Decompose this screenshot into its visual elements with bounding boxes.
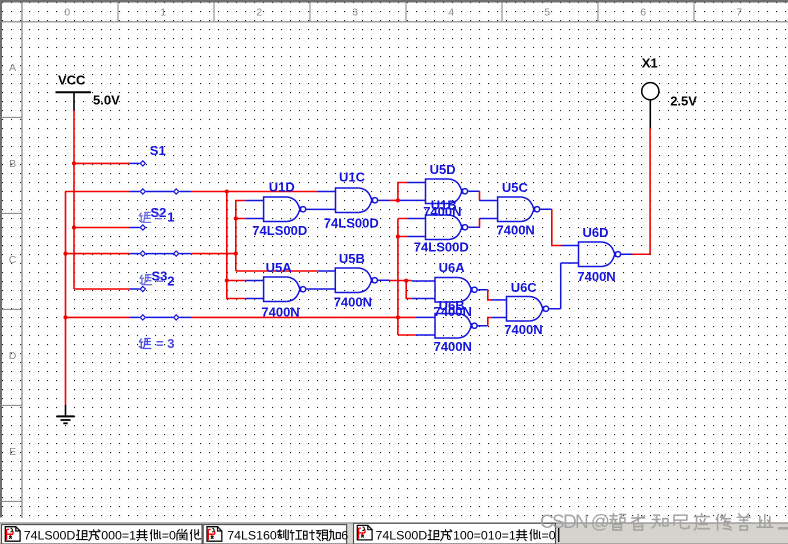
svg-text:7400N: 7400N <box>261 304 299 319</box>
op-gate U6A 7400N <box>435 278 477 303</box>
wire U6C out to U6D bottom <box>549 263 578 309</box>
svg-text:7: 7 <box>736 7 742 19</box>
svg-text:74LS00D: 74LS00D <box>414 240 469 255</box>
wire through3 right <box>191 316 416 318</box>
svg-text:3: 3 <box>352 7 358 19</box>
svg-text:74LS160: 74LS160 <box>227 528 277 542</box>
svg-text:7400N: 7400N <box>334 294 372 309</box>
text cursor <box>558 528 560 543</box>
svg-text:4: 4 <box>448 7 454 19</box>
window top border <box>0 0 788 3</box>
wire U1C out <box>378 199 390 201</box>
wire S2 pole <box>74 227 129 229</box>
op-gate U1B 74LS00D <box>426 215 468 240</box>
wire through1 left <box>66 191 130 193</box>
wire U1B out to U5C <box>468 226 479 228</box>
svg-text:74LS00D: 74LS00D <box>324 215 379 230</box>
wire U6B out to U6C bottom <box>478 325 488 327</box>
wire through1 to U1C <box>191 191 318 193</box>
svg-text:= 3: = 3 <box>156 336 174 351</box>
svg-text:1: 1 <box>160 7 166 19</box>
switch S2 contact <box>129 227 139 229</box>
op-gate U5B 7400N <box>335 268 377 293</box>
wire to U5D top input <box>398 183 408 201</box>
svg-text:X1: X1 <box>642 55 658 70</box>
op-gate U5A 7400N <box>264 277 306 302</box>
window left border <box>0 3 2 518</box>
svg-text:74LS00D: 74LS00D <box>376 528 428 542</box>
svg-text:7400N: 7400N <box>504 322 542 337</box>
svg-text:6: 6 <box>640 7 646 19</box>
wire S3 pole <box>74 288 129 290</box>
svg-text:U6D: U6D <box>583 225 609 240</box>
wire U5D out to U5C <box>468 190 479 192</box>
svg-text:6: 6 <box>341 528 348 542</box>
svg-text:U1C: U1C <box>339 170 366 185</box>
switch S1 through contacts <box>129 191 139 193</box>
svg-text:=: = <box>155 210 163 225</box>
top ruler ticks <box>118 3 694 22</box>
svg-text:U5C: U5C <box>502 180 529 195</box>
svg-text:7400N: 7400N <box>434 339 472 354</box>
svg-text:C: C <box>9 254 17 266</box>
svg-text:U6B: U6B <box>439 298 465 313</box>
svg-text:=: = <box>156 272 164 287</box>
op-gate U6C 7400N <box>507 297 549 322</box>
switch S3 through contacts <box>129 316 139 318</box>
wire U1D input bus <box>236 201 318 272</box>
svg-text:U6A: U6A <box>439 260 466 275</box>
sheet tab 2 <box>203 525 346 544</box>
svg-text:000=1: 000=1 <box>101 528 136 542</box>
op-gate U6D 7400N <box>579 242 621 267</box>
wire U1D out to U1C in <box>306 208 335 210</box>
svg-text:U5D: U5D <box>430 162 456 177</box>
junction dots <box>72 161 76 165</box>
svg-text:U1B: U1B <box>431 198 457 213</box>
switch S2 through contacts <box>129 253 139 255</box>
left ruler ticks <box>0 117 22 501</box>
ground symbol <box>65 405 67 416</box>
svg-text:CSDN @: CSDN @ <box>540 512 609 533</box>
wire S1 pole <box>74 162 129 164</box>
svg-text:100=010=1: 100=010=1 <box>453 528 516 542</box>
svg-text:=0: =0 <box>162 528 176 542</box>
svg-text:7400N: 7400N <box>497 223 535 238</box>
wire U5B out to U6A inputs <box>378 279 390 281</box>
label key=3 <box>139 339 151 349</box>
svg-text:E: E <box>9 446 16 458</box>
svg-text:7400N: 7400N <box>577 269 615 284</box>
op-gate U1D 74LS00D <box>264 197 306 222</box>
svg-text:0: 0 <box>64 7 70 19</box>
label key=2 <box>140 275 152 285</box>
op-gate U6B 7400N <box>435 314 477 339</box>
wire left ground rail <box>65 192 67 406</box>
wire U5A input bus <box>227 192 246 299</box>
svg-text:U6C: U6C <box>511 280 538 295</box>
svg-text:2: 2 <box>167 274 174 289</box>
svg-text:U5B: U5B <box>339 251 365 266</box>
svg-text:74LS00D: 74LS00D <box>252 223 307 238</box>
wire VCC rail <box>73 111 75 290</box>
wire U1B input bus <box>398 219 416 336</box>
svg-text:D: D <box>9 350 17 362</box>
svg-text:S1: S1 <box>150 143 166 158</box>
svg-text:74LS00D: 74LS00D <box>24 528 76 542</box>
switch S3 contact <box>129 288 139 290</box>
op-gate U1C 74LS00D <box>336 188 378 213</box>
wire U6D out to X1 <box>621 253 632 255</box>
sheet tab 1 <box>2 525 203 544</box>
wire through2 right <box>191 253 236 255</box>
VCC power symbol <box>56 91 92 93</box>
sheet tab 3 (active) <box>354 523 556 544</box>
svg-text:5: 5 <box>544 7 550 19</box>
wire U6A out to U6C top <box>478 289 488 291</box>
svg-text:2: 2 <box>256 7 262 19</box>
op-gate U5C 7400N <box>498 197 540 222</box>
op-gate U5D 7400N <box>426 179 468 204</box>
probe X1 <box>649 100 651 128</box>
svg-text:1: 1 <box>167 209 174 224</box>
svg-text:2.5V: 2.5V <box>670 94 697 109</box>
wire U5A out to U5B <box>306 288 335 290</box>
svg-text:A: A <box>9 62 16 74</box>
svg-text:U5A: U5A <box>266 260 293 275</box>
wire through3 left <box>66 316 130 318</box>
tab bar <box>0 523 788 544</box>
switch S1 contact <box>129 162 139 164</box>
wire through2 left <box>66 253 130 255</box>
svg-text:U1D: U1D <box>269 180 295 195</box>
label key=1 <box>139 212 151 222</box>
svg-text:VCC: VCC <box>58 73 86 88</box>
svg-text:B: B <box>9 158 16 170</box>
svg-text:5.0V: 5.0V <box>93 93 120 108</box>
wire U5C out to U6D top <box>540 208 552 210</box>
